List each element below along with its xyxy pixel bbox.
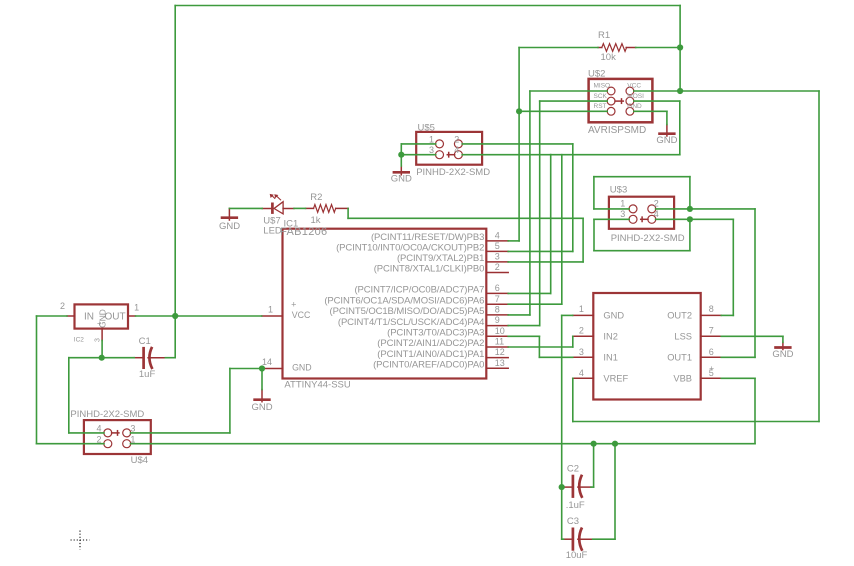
wire net SCK [508,101,607,326]
svg-text:3: 3 [429,145,434,155]
wire net MISO [508,91,607,315]
svg-text:OUT1: OUT1 [667,353,692,363]
junction C3 right at VBB rail [612,441,618,447]
junction GND at C1 [99,355,105,361]
junction RST [516,108,522,114]
junction ATTINY GND pin 14 [259,365,265,371]
svg-text:VBB: VBB [673,374,692,384]
svg-text:.1uF: .1uF [566,500,585,511]
junction U$3 pin 4 row [687,216,693,222]
ground symbol at driver LSS [774,342,791,349]
U$5 pin circles 1,2,3,4 [436,140,463,159]
svg-text:10uF: 10uF [566,550,588,561]
svg-text:8: 8 [495,305,500,315]
svg-text:1: 1 [130,434,135,444]
svg-text:4: 4 [454,145,459,155]
svg-text:(PCINT4/T1/SCL/USCK/ADC4)PA4: (PCINT4/T1/SCL/USCK/ADC4)PA4 [338,317,484,328]
svg-text:R2: R2 [310,192,322,203]
motor driver right pin stubs 8,7,6,5 [701,315,722,378]
motor driver IC body (GND IN2 IN1 VREF / OUT2 LSS OUT1 VBB) [593,293,700,400]
svg-text:2: 2 [654,199,659,209]
svg-text:PINHD-2X2-SMD: PINHD-2X2-SMD [70,409,144,420]
svg-text:MOSI: MOSI [627,93,644,100]
IC2 regulator labels [60,301,139,344]
svg-text:7: 7 [495,294,500,304]
svg-text:(PCINT2/AIN1/ADC2)PA2: (PCINT2/AIN1/ADC2)PA2 [377,338,484,349]
svg-text:U$2: U$2 [588,69,605,80]
svg-text:IN1: IN1 [603,353,617,363]
svg-text:U$4: U$4 [131,455,148,466]
U$3 pin numbers [620,199,659,220]
svg-text:(PCINT3/T0/ADC3)PA3: (PCINT3/T0/ADC3)PA3 [387,328,484,339]
svg-text:1: 1 [134,303,139,313]
svg-text:11: 11 [495,337,504,347]
svg-text:SCK: SCK [594,93,608,100]
svg-text:7: 7 [709,326,714,336]
wire net U$5.4 to PA7 [462,155,551,294]
svg-text:4: 4 [495,231,500,241]
svg-text:C1: C1 [139,336,151,347]
wire net GND driver / C2 / C3 [562,315,573,539]
IC U$1 pin 14 GND stub [263,368,282,370]
svg-text:C2: C2 [567,464,579,475]
connector U$3 PINHD-2X2-SMD body [609,197,674,229]
svg-text:GND: GND [219,221,240,232]
svg-text:5: 5 [495,241,500,251]
ground symbol at LED [221,208,238,220]
svg-text:RST: RST [594,103,607,110]
cursor crosshair [71,531,90,550]
capacitor C1 1uF [134,347,165,369]
wire net RESET (R1 / RST / PB3) [508,48,607,241]
voltage regulator IC2 body [67,304,136,340]
wire net U$5.2 to PB2 [462,144,573,252]
svg-text:(PCINT8/XTAL1/CLKI)PB0: (PCINT8/XTAL1/CLKI)PB0 [374,264,485,275]
wire net OUT2 / U$3 pins 3,4 [594,219,733,315]
junction R1 right [677,44,683,50]
wire net PA2 to IN2 [508,336,573,347]
svg-text:MISO: MISO [594,83,611,90]
svg-text:R1: R1 [598,30,610,41]
svg-text:4: 4 [579,368,584,378]
capacitor C2 .1uF [564,475,592,498]
wire net GND AVRISP [634,111,667,124]
U$4 pin circles 4,3,2,1 [104,429,131,448]
svg-text:U$5: U$5 [418,123,435,134]
junction VCC at regulator OUT [172,313,178,319]
capacitor C3 10uF [564,528,593,551]
IC U$1 pin 1 VCC stub [262,315,283,317]
svg-text:1: 1 [268,305,273,315]
connector U$2 AVRISPSMD body [589,79,653,122]
junction C2 right at VBB rail [591,441,597,447]
svg-text:GND: GND [627,103,642,110]
svg-text:IC2: IC2 [74,337,85,344]
wire net LSS to ground [721,336,783,342]
ground symbol at U$2 AVRISP [658,125,675,137]
svg-text:12: 12 [495,347,505,357]
svg-text:GND: GND [391,173,412,184]
svg-text:GND: GND [656,135,677,146]
junction C2 left [559,484,565,490]
ground symbol at ATTINY GND pin [253,390,270,402]
wire net VCC [136,6,820,422]
svg-text:1: 1 [579,304,584,314]
wire net power input to IC2 IN [37,316,105,444]
svg-text:GND: GND [772,349,793,360]
motor driver pin names [603,311,628,384]
svg-text:1: 1 [620,199,625,209]
svg-text:FAB1206: FAB1206 [280,226,327,238]
wire net U$5 GND [401,144,435,166]
LED U$7 FAB1206 [262,194,294,214]
svg-text:2: 2 [579,326,584,336]
svg-text:(PCINT7/ICP/OC0B/ADC7)PA7: (PCINT7/ICP/OC0B/ADC7)PA7 [354,285,484,296]
svg-text:(PCINT1/AIN0/ADC1)PA1: (PCINT1/AIN0/ADC1)PA1 [377,349,484,360]
svg-text:6: 6 [709,347,714,357]
wire net LED / R2 / PB1 [229,208,583,262]
svg-text:2: 2 [454,134,459,144]
U$2 pin circles MISO SCK RST VCC MOSI GND [607,87,634,115]
svg-text:VCC: VCC [627,83,641,90]
wire net OUT1 / U$3 pins 1,2 [594,177,755,358]
U$3 pin circles 1,2,3,4 [629,205,656,223]
motor driver pin numbers [579,304,714,378]
svg-text:14: 14 [262,357,272,367]
wire net MOSI [508,101,680,304]
junction AVRISP VCC row [677,88,683,94]
ATTINY left pin texts [262,300,312,373]
ATTINY right pin names [324,232,484,370]
connector U$5 PINHD-2X2-SMD body [416,132,482,165]
resistor R2 1k [306,205,349,213]
svg-text:(PCINT0/AREF/ADC0)PA0: (PCINT0/AREF/ADC0)PA0 [373,360,484,371]
svg-text:2: 2 [60,301,65,311]
svg-text:6: 6 [495,283,500,293]
svg-text:4: 4 [97,424,102,434]
svg-text:13: 13 [495,358,505,368]
junction U$5 GND [398,152,404,158]
svg-text:GND: GND [292,363,312,373]
motor driver left pin stubs 1-4 [573,315,594,378]
svg-text:GND: GND [251,402,272,413]
svg-text:(PCINT5/OC1B/MISO/DO/ADC5)PA5: (PCINT5/OC1B/MISO/DO/ADC5)PA5 [330,306,485,317]
U$5 pin numbers [429,134,459,155]
svg-text:+: + [291,300,296,310]
svg-text:LSS: LSS [674,332,692,342]
IC U$1 ATTINY44-SSU body [283,229,487,379]
resistor R1 10k [598,44,636,52]
svg-text:3: 3 [94,338,101,342]
wire net VBB rail [131,378,756,539]
svg-text:3: 3 [495,252,500,262]
svg-text:(PCINT6/OC1A/SDA/MOSI/ADC6)PA6: (PCINT6/OC1A/SDA/MOSI/ADC6)PA6 [324,295,484,306]
IC U$1 right pin stubs 4,5,3,2,6,7,8,9,10,11,12,13 [486,241,508,368]
svg-text:8: 8 [709,304,714,314]
svg-text:AVRISPSMD: AVRISPSMD [588,125,646,136]
svg-text:(PCINT9/XTAL2)PB1: (PCINT9/XTAL2)PB1 [397,253,484,264]
svg-text:2: 2 [97,434,102,444]
svg-text:3: 3 [579,347,584,357]
svg-text:U$3: U$3 [610,185,627,196]
junction U$3 pin 2 row [687,206,693,212]
svg-text:10: 10 [495,326,505,336]
svg-text:1: 1 [429,134,434,144]
svg-text:VREF: VREF [603,374,628,384]
svg-text:(PCINT11/RESET/DW)PB3: (PCINT11/RESET/DW)PB3 [371,232,484,243]
svg-text:OUT2: OUT2 [667,311,692,321]
wire net PA3 to IN1 [508,336,573,357]
svg-text:1k: 1k [311,215,321,226]
svg-text:2: 2 [495,262,500,272]
svg-text:+: + [97,319,102,328]
svg-text:4: 4 [654,209,659,219]
connector U$4 PINHD-2X2-SMD body [84,420,151,454]
svg-text:IN2: IN2 [603,332,617,342]
svg-text:VCC: VCC [292,310,311,320]
svg-text:PINHD-2X2-SMD: PINHD-2X2-SMD [416,167,490,178]
svg-text:+: + [709,363,714,373]
svg-text:9: 9 [495,315,500,325]
svg-text:IN: IN [84,312,94,323]
U$4 pin numbers [97,424,136,445]
svg-text:10k: 10k [601,52,617,63]
U$2 pin names [594,83,645,111]
ground symbol at U$5 [393,166,410,175]
svg-text:3: 3 [620,209,625,219]
svg-text:(PCINT10/INT0/OC0A/CKOUT)PB2: (PCINT10/INT0/OC0A/CKOUT)PB2 [336,243,484,254]
ATTINY right pin numbers [495,231,505,368]
svg-text:1uF: 1uF [139,369,156,380]
svg-text:GND: GND [603,311,624,321]
svg-text:3: 3 [130,424,135,434]
svg-text:ATTINY44-SSU: ATTINY44-SSU [284,380,350,391]
wire net GND ATTINY / U$4.3 [131,369,263,433]
svg-text:C3: C3 [567,516,579,527]
svg-text:PINHD-2X2-SMD: PINHD-2X2-SMD [611,233,685,244]
wire net GND regulator / C1 / U$4.4 [69,341,134,433]
